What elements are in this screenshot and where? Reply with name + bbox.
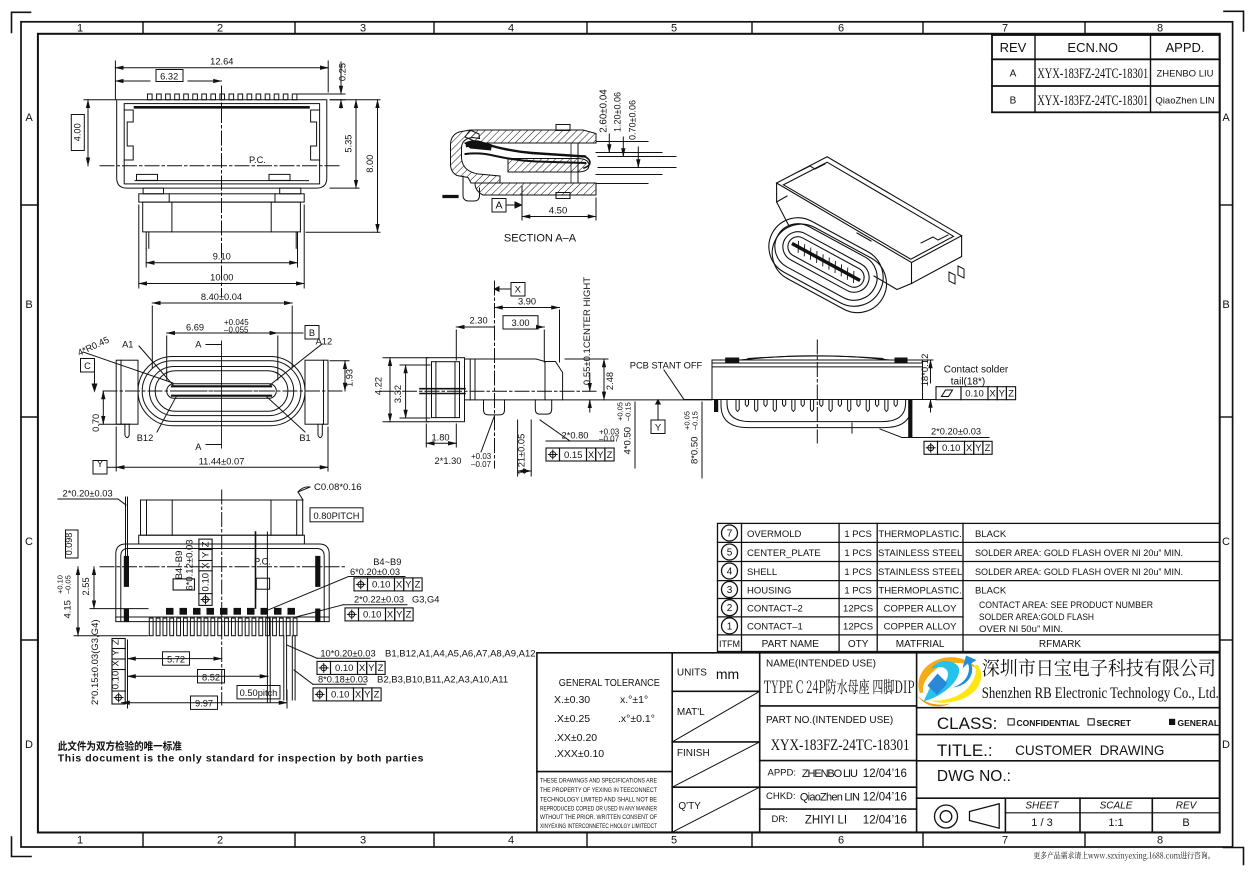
svg-text:UNITS: UNITS: [677, 668, 707, 679]
svg-text:0.10: 0.10: [335, 663, 354, 674]
svg-text:8*0.50: 8*0.50: [690, 437, 701, 464]
svg-text:Z: Z: [607, 450, 613, 461]
svg-text:0.70: 0.70: [91, 414, 101, 432]
svg-text:X: X: [111, 660, 122, 667]
svg-text:ZHIYI LI: ZHIYI LI: [805, 815, 847, 827]
svg-text:6: 6: [838, 23, 844, 35]
svg-text:4.22: 4.22: [374, 377, 384, 395]
svg-text:8*0.18±0.03: 8*0.18±0.03: [318, 674, 368, 684]
svg-text:4*R0.45: 4*R0.45: [76, 335, 111, 358]
svg-text:QiaoZhen LIN: QiaoZhen LIN: [1155, 96, 1214, 107]
svg-text:B12: B12: [137, 433, 154, 443]
svg-text:SHEET: SHEET: [1025, 801, 1059, 812]
svg-text:ECN.NO: ECN.NO: [1067, 40, 1118, 55]
svg-text:tail(18*): tail(18*): [951, 377, 985, 388]
svg-text:.XX±0.20: .XX±0.20: [554, 732, 597, 744]
svg-text:C: C: [1222, 536, 1230, 548]
svg-text:CLASS:: CLASS:: [937, 714, 997, 733]
svg-text:Q'TY: Q'TY: [678, 801, 701, 812]
svg-text:STAINLESS STEEL: STAINLESS STEEL: [878, 567, 962, 578]
svg-text:Z: Z: [374, 690, 380, 701]
svg-text:GENERAL: GENERAL: [1178, 718, 1220, 728]
svg-text:NAME(INTENDED USE): NAME(INTENDED USE): [766, 659, 876, 670]
svg-text:2: 2: [217, 835, 223, 847]
svg-text:0.10: 0.10: [372, 580, 391, 591]
svg-text:1 PCS: 1 PCS: [844, 548, 871, 559]
svg-text:SOLDER AREA:GOLD FLASH: SOLDER AREA:GOLD FLASH: [979, 612, 1094, 623]
svg-text:ZHENBO LIU: ZHENBO LIU: [1156, 69, 1213, 80]
svg-text:6*0.20±0.03: 6*0.20±0.03: [350, 567, 400, 577]
svg-text:4: 4: [508, 835, 514, 847]
svg-text:OVER NI 50u” MIN.: OVER NI 50u” MIN.: [979, 624, 1063, 635]
svg-text:B2,B3,B10,B11,A2,A3,A10,A11: B2,B3,B10,B11,A2,A3,A10,A11: [377, 674, 508, 685]
svg-text:CONTACT–2: CONTACT–2: [747, 604, 803, 615]
svg-text:Y: Y: [655, 423, 662, 434]
svg-text:2*0.20±0.03: 2*0.20±0.03: [63, 488, 113, 498]
svg-text:6.69: 6.69: [186, 323, 204, 333]
svg-text:A: A: [495, 200, 502, 212]
svg-text:BLACK: BLACK: [975, 529, 1007, 540]
svg-text:2*0.80: 2*0.80: [562, 431, 589, 441]
svg-text:MATFRIAL: MATFRIAL: [896, 639, 945, 650]
svg-text:A1: A1: [122, 340, 133, 350]
svg-text:THERMOPLASTIC.: THERMOPLASTIC.: [878, 529, 961, 540]
svg-text:–0.15: –0.15: [624, 402, 633, 421]
svg-text:CONTACT–1: CONTACT–1: [747, 622, 803, 633]
svg-text:5: 5: [727, 547, 733, 558]
svg-text:–0.15: –0.15: [690, 411, 699, 430]
svg-text:WTHOUT THE PRIOR. WRITTEN CONS: WTHOUT THE PRIOR. WRITTEN CONSENT OF: [540, 814, 657, 821]
svg-text:X: X: [515, 285, 522, 296]
svg-text:CUSTOMER: CUSTOMER: [1015, 743, 1092, 758]
svg-text:TITLE.:: TITLE.:: [937, 741, 993, 760]
svg-text:7: 7: [727, 528, 733, 539]
svg-text:B: B: [1182, 817, 1189, 829]
svg-text:0.50pitch: 0.50pitch: [240, 688, 278, 698]
svg-text:Shenzhen RB Electronic Technol: Shenzhen RB Electronic Technology Co., L…: [982, 685, 1219, 702]
svg-text:x.°±1°: x.°±1°: [620, 694, 648, 706]
svg-text:SCALE: SCALE: [1100, 801, 1133, 812]
svg-text:C: C: [25, 536, 33, 548]
svg-text:PCB STANT OFF: PCB STANT OFF: [630, 361, 703, 371]
svg-text:7: 7: [1002, 835, 1008, 847]
svg-text:P.C.: P.C.: [254, 557, 271, 567]
svg-text:0.10: 0.10: [331, 690, 350, 701]
svg-text:X: X: [387, 610, 394, 621]
svg-text:XYX-183FZ-24TC-18301: XYX-183FZ-24TC-18301: [771, 737, 910, 754]
svg-text:COPPER ALLOY: COPPER ALLOY: [884, 604, 958, 615]
svg-text:–0.07: –0.07: [599, 435, 620, 444]
svg-text:X: X: [989, 389, 996, 400]
svg-text:Y: Y: [396, 610, 403, 621]
svg-text:–0.07: –0.07: [471, 460, 492, 469]
svg-text:Y: Y: [97, 459, 104, 470]
svg-text:2*1.30: 2*1.30: [435, 456, 462, 466]
svg-text:0.10: 0.10: [111, 671, 122, 690]
svg-text:X.±0.30: X.±0.30: [554, 694, 590, 706]
svg-text:0.10: 0.10: [201, 573, 212, 592]
svg-text:1 PCS: 1 PCS: [844, 585, 871, 596]
svg-text:ITFM: ITFM: [719, 639, 740, 649]
svg-text:4: 4: [508, 23, 514, 35]
svg-text:2.60±0.04: 2.60±0.04: [598, 89, 609, 133]
svg-text:4.50: 4.50: [549, 206, 568, 217]
svg-text:11.44±0.07: 11.44±0.07: [199, 456, 245, 466]
svg-text:8.40±0.04: 8.40±0.04: [201, 292, 242, 302]
svg-text:Y: Y: [999, 389, 1006, 400]
svg-text:12/04’16: 12/04’16: [863, 792, 907, 804]
svg-text:Z: Z: [1008, 389, 1014, 400]
svg-text:A: A: [1222, 112, 1230, 124]
svg-text:OVERMOLD: OVERMOLD: [747, 529, 802, 540]
svg-text:5: 5: [671, 23, 677, 35]
svg-text:3.90: 3.90: [518, 297, 536, 307]
svg-text:1.21±0.05: 1.21±0.05: [516, 434, 526, 475]
svg-text:1: 1: [727, 621, 733, 632]
svg-text:10*0.20±0.03: 10*0.20±0.03: [320, 648, 375, 658]
svg-text:SHELL: SHELL: [747, 567, 777, 578]
svg-text:SOLDER AREA: GOLD FLASH OV: SOLDER AREA: GOLD FLASH OVER NI 20u” MIN…: [975, 548, 1183, 559]
svg-text:10.00: 10.00: [210, 272, 233, 282]
svg-text:Y: Y: [364, 690, 371, 701]
svg-text:BLACK: BLACK: [975, 585, 1007, 596]
svg-text:CHKD:: CHKD:: [766, 791, 796, 802]
svg-text:2: 2: [217, 23, 223, 35]
svg-text:6*0.12±0.03: 6*0.12±0.03: [185, 539, 196, 590]
svg-text:2*0.20±0.03: 2*0.20±0.03: [931, 427, 981, 437]
svg-text:STAINLESS STEEL: STAINLESS STEEL: [878, 548, 962, 559]
svg-text:7: 7: [1002, 23, 1008, 35]
svg-text:B1: B1: [299, 433, 310, 443]
svg-text:2*0.15±0.03(G3,G4): 2*0.15±0.03(G3,G4): [90, 619, 101, 705]
svg-text:9.10: 9.10: [213, 252, 231, 262]
svg-text:3: 3: [360, 23, 366, 35]
svg-text:X: X: [966, 443, 973, 454]
svg-text:CENTER_PLATE: CENTER_PLATE: [747, 548, 821, 559]
svg-text:GENERAL TOLERANCE: GENERAL TOLERANCE: [559, 677, 660, 689]
svg-text:12PCS: 12PCS: [843, 622, 873, 633]
svg-text:DR:: DR:: [772, 814, 788, 825]
svg-text:REV: REV: [1000, 40, 1027, 55]
svg-text:12PCS: 12PCS: [843, 604, 873, 615]
svg-text:OTY: OTY: [848, 639, 869, 650]
svg-text:Z: Z: [406, 610, 412, 621]
svg-text:1: 1: [77, 23, 83, 35]
svg-text:FINISH: FINISH: [677, 748, 710, 759]
svg-text:B4~B9: B4~B9: [174, 551, 185, 580]
svg-text:SECTION A–A: SECTION A–A: [504, 233, 577, 245]
svg-text:5.72: 5.72: [167, 655, 185, 665]
svg-text:18*0.12: 18*0.12: [920, 354, 931, 387]
svg-text:6.32: 6.32: [160, 72, 178, 82]
svg-text:QiaoZhen LIN: QiaoZhen LIN: [800, 792, 860, 804]
svg-text:B1,B12,A1,A4,A5,A6,A7,A8,A9,A1: B1,B12,A1,A4,A5,A6,A7,A8,A9,A12: [385, 648, 536, 659]
svg-text:1.20±0.06: 1.20±0.06: [612, 92, 622, 132]
svg-text:1.80: 1.80: [431, 432, 449, 442]
svg-text:A: A: [25, 112, 33, 124]
svg-text:2.48: 2.48: [605, 372, 615, 390]
svg-text:4.00: 4.00: [72, 123, 82, 141]
svg-text:2*0.22±0.03: 2*0.22±0.03: [354, 594, 404, 604]
svg-text:D: D: [25, 739, 33, 751]
svg-text:X: X: [588, 450, 595, 461]
svg-text:Contact solder: Contact solder: [944, 365, 1009, 376]
svg-text:RFMARK: RFMARK: [1039, 639, 1082, 650]
svg-text:X: X: [201, 562, 212, 569]
svg-text:3: 3: [360, 835, 366, 847]
svg-text:This document is the only: This document is the only standard for i…: [58, 753, 424, 765]
svg-text:Y: Y: [405, 580, 412, 591]
svg-text:0.70±0.06: 0.70±0.06: [627, 100, 637, 140]
svg-text:CONFIDENTIAL: CONFIDENTIAL: [1017, 718, 1080, 728]
svg-text:C0.08*0.16: C0.08*0.16: [314, 482, 362, 493]
svg-text:1 PCS: 1 PCS: [844, 529, 871, 540]
svg-text:0.25: 0.25: [338, 63, 348, 81]
svg-text:APPD.: APPD.: [1165, 40, 1204, 55]
svg-text:5: 5: [671, 835, 677, 847]
svg-text:TECHNOLOGY LIMITED AND SHALL N: TECHNOLOGY LIMITED AND SHALL NOT BE: [540, 797, 658, 804]
svg-text:APPD:: APPD:: [768, 768, 797, 779]
svg-text:Y: Y: [111, 649, 122, 656]
svg-text:12/04’16: 12/04’16: [863, 815, 907, 827]
svg-text:Z: Z: [201, 541, 212, 547]
svg-text:0.15: 0.15: [564, 450, 583, 461]
svg-text:XINYEXING INTERCONNETEC HNOLGY: XINYEXING INTERCONNETEC HNOLGY LIMITEDCT: [540, 823, 657, 830]
svg-text:0.80PITCH: 0.80PITCH: [314, 511, 360, 521]
svg-text:B: B: [1222, 299, 1229, 311]
svg-text:Y: Y: [368, 663, 375, 674]
svg-text:A: A: [195, 340, 202, 350]
svg-text:Y: Y: [975, 443, 982, 454]
svg-text:4.15: 4.15: [63, 600, 74, 619]
svg-text:A12: A12: [316, 337, 333, 347]
svg-text:1 / 3: 1 / 3: [1031, 817, 1052, 829]
svg-text:X: X: [396, 580, 403, 591]
svg-text:P.C.: P.C.: [249, 155, 266, 165]
svg-text:8: 8: [1157, 23, 1163, 35]
svg-text:THE PROPERTY OF YEXING IN TEEC: THE PROPERTY OF YEXING IN TEECONNECT: [540, 787, 657, 794]
svg-text:A: A: [1010, 69, 1017, 80]
svg-text:C: C: [84, 361, 91, 371]
svg-text:Y: Y: [201, 551, 212, 558]
svg-text:–0.05: –0.05: [63, 575, 72, 594]
svg-text:1: 1: [77, 835, 83, 847]
svg-text:–0.055: –0.055: [224, 326, 249, 335]
svg-text:0.55±0.1CENTER HIGHT: 0.55±0.1CENTER HIGHT: [582, 277, 593, 385]
svg-text:PART NO.(INTENDED USE): PART NO.(INTENDED USE): [766, 715, 893, 726]
svg-text:mm: mm: [716, 666, 739, 682]
svg-text:COPPER ALLOY: COPPER ALLOY: [884, 622, 958, 633]
svg-text:0.10: 0.10: [942, 443, 961, 454]
svg-text:Z: Z: [415, 580, 421, 591]
svg-text:THERMOPLASTIC.: THERMOPLASTIC.: [878, 585, 961, 596]
svg-text:3.32: 3.32: [393, 385, 403, 403]
svg-text:8: 8: [1157, 835, 1163, 847]
svg-text:REV: REV: [1176, 801, 1198, 812]
svg-text:.XXX±0.10: .XXX±0.10: [554, 748, 604, 760]
svg-text:B: B: [25, 299, 32, 311]
svg-text:0.098: 0.098: [64, 533, 74, 556]
svg-text:PART NAME: PART NAME: [762, 639, 820, 650]
svg-text:A: A: [195, 442, 202, 452]
svg-text:Y: Y: [597, 450, 604, 461]
svg-text:XYX-183FZ-24TC-18301: XYX-183FZ-24TC-18301: [1037, 93, 1148, 109]
svg-text:B: B: [309, 328, 315, 338]
svg-text:0.10: 0.10: [965, 389, 984, 400]
svg-text:3: 3: [727, 585, 733, 596]
svg-text:CONTACT AREA: SEE PRODUCT: CONTACT AREA: SEE PRODUCT NUMBER: [979, 600, 1153, 611]
svg-text:Z: Z: [985, 443, 991, 454]
svg-text:THESE DRAWINGS AND SPECIFICATI: THESE DRAWINGS AND SPECIFICATIONS ARE: [540, 778, 658, 785]
svg-text:DRAWING: DRAWING: [1100, 743, 1165, 758]
svg-text:1 PCS: 1 PCS: [844, 567, 871, 578]
svg-text:.x°±0.1°: .x°±0.1°: [618, 713, 655, 725]
svg-text:8.52: 8.52: [202, 672, 220, 682]
svg-text:9.97: 9.97: [195, 699, 213, 709]
svg-text:MAT'L: MAT'L: [677, 707, 705, 718]
svg-text:5.35: 5.35: [344, 135, 354, 153]
svg-text:SECRET: SECRET: [1097, 718, 1132, 728]
svg-text:X: X: [359, 663, 366, 674]
svg-text:12.64: 12.64: [210, 57, 233, 67]
svg-text:8.00: 8.00: [365, 155, 375, 173]
svg-text:B4~B9: B4~B9: [373, 557, 401, 567]
svg-text:SOLDER AREA: GOLD FLASH OV: SOLDER AREA: GOLD FLASH OVER NI 20u” MIN…: [975, 567, 1183, 578]
svg-text:.X±0.25: .X±0.25: [554, 713, 590, 725]
svg-text:2: 2: [727, 603, 733, 614]
svg-text:Z: Z: [111, 639, 122, 645]
svg-text:4*0.50: 4*0.50: [623, 427, 634, 454]
svg-text:HOUSING: HOUSING: [747, 585, 791, 596]
svg-text:XYX-183FZ-24TC-18301: XYX-183FZ-24TC-18301: [1037, 66, 1148, 82]
svg-text:2.30: 2.30: [470, 316, 488, 326]
svg-text:2.55: 2.55: [81, 577, 91, 595]
svg-text:6: 6: [838, 835, 844, 847]
svg-text:4: 4: [727, 566, 733, 577]
svg-text:X: X: [355, 690, 362, 701]
svg-text:DWG NO.:: DWG NO.:: [937, 768, 1011, 785]
svg-text:REPRODUCED COPIED OR USED IN A: REPRODUCED COPIED OR USED IN ANY MANNER: [540, 806, 657, 813]
svg-text:D: D: [1222, 739, 1230, 751]
svg-text:1.93: 1.93: [344, 369, 354, 387]
svg-text:B: B: [1010, 96, 1017, 107]
svg-text:3.00: 3.00: [511, 318, 529, 328]
svg-text:1:1: 1:1: [1108, 817, 1123, 829]
svg-text:G3,G4: G3,G4: [412, 594, 439, 604]
svg-text:12/04’16: 12/04’16: [863, 768, 907, 780]
svg-text:0.10: 0.10: [363, 610, 382, 621]
svg-text:ZHENBO LIU: ZHENBO LIU: [802, 768, 858, 780]
svg-text:Z: Z: [378, 663, 384, 674]
